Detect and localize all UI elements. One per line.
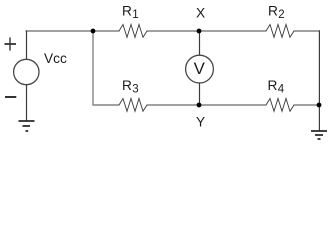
- wire right vertical from top corner to ground: [318, 30, 320, 131]
- svg-text:R: R: [122, 3, 132, 18]
- svg-text:R: R: [122, 78, 132, 93]
- wire Vcc bottom stem to ground: [26, 85, 28, 121]
- ground left: [19, 121, 35, 131]
- voltage source Vcc: [14, 59, 39, 84]
- wire left vertical from node A down: [92, 31, 94, 105]
- resistor R3: [119, 99, 147, 112]
- svg-text:4: 4: [278, 83, 285, 95]
- node right junction dot: [317, 103, 322, 108]
- node A junction dot: [91, 29, 96, 34]
- resistor R4: [266, 99, 294, 112]
- wire Vcc top stem: [26, 31, 28, 60]
- wire bottom from R3 to node Y: [147, 104, 200, 106]
- svg-text:2: 2: [278, 9, 284, 21]
- wire bottom from node Y to R4: [199, 104, 267, 106]
- svg-text:1: 1: [132, 9, 138, 21]
- wire bottom from corner to R3: [93, 104, 120, 106]
- node Y junction dot: [197, 103, 202, 108]
- voltmeter U1: [186, 55, 214, 83]
- svg-text:X: X: [196, 6, 205, 21]
- wire bottom from R4 to right junction: [294, 104, 320, 106]
- wire top from node X to R2: [199, 30, 267, 32]
- ground right: [311, 131, 327, 139]
- node X junction dot: [197, 29, 202, 34]
- svg-text:Vcc: Vcc: [44, 51, 67, 66]
- svg-text:Y: Y: [196, 115, 205, 130]
- svg-text:R: R: [268, 3, 278, 18]
- wire top from node A to R1: [93, 30, 120, 32]
- svg-text:V: V: [194, 59, 206, 78]
- wire top from R2 to right corner: [294, 30, 320, 32]
- svg-text:R: R: [268, 78, 278, 93]
- wire voltmeter bottom lead to Y: [199, 82, 201, 105]
- wire voltmeter top lead from X: [199, 31, 201, 56]
- resistor R2: [266, 25, 294, 38]
- wire top from R1 to node X: [147, 30, 200, 32]
- svg-text:3: 3: [132, 83, 138, 95]
- plus sign of Vcc: [5, 38, 17, 51]
- resistor R1: [119, 25, 147, 38]
- wire top from Vcc corner to node A: [26, 30, 94, 32]
- minus sign of Vcc: [5, 96, 16, 98]
